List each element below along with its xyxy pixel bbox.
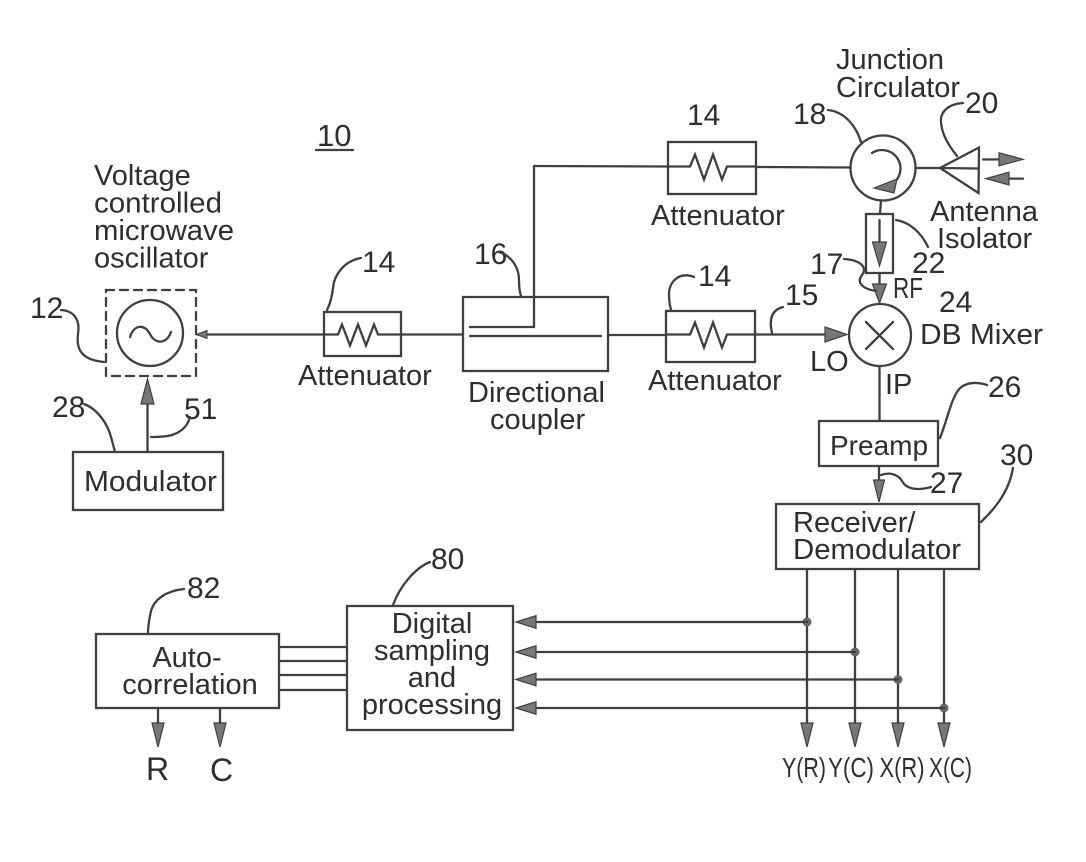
ref numeral 18 <box>793 98 826 131</box>
ref numeral 24 <box>939 286 972 319</box>
svg-text:20: 20 <box>965 87 998 120</box>
outgoing wave arrow <box>983 158 1004 160</box>
label LO <box>810 346 849 378</box>
label: Voltage controlled microwave oscillator <box>94 160 234 275</box>
svg-text:processing: processing <box>362 689 502 721</box>
mixer X <box>866 322 893 349</box>
feedback line 1 to digital box <box>536 621 807 623</box>
R output line <box>157 708 159 728</box>
wire attenuator 14c to mixer LO <box>755 333 827 335</box>
vertical output line XR <box>897 569 899 727</box>
arrowhead YR output <box>801 723 813 747</box>
ref numeral 14 (top attenuator) <box>687 99 720 132</box>
label Antenna <box>930 196 1039 228</box>
svg-text:Y(C): Y(C) <box>828 752 874 783</box>
figure number 10 <box>317 118 351 153</box>
attenuator 14a box <box>324 312 401 356</box>
leader 15 <box>771 307 783 333</box>
resistor zigzag 14a <box>324 325 401 346</box>
wire isolator to mixer RF <box>878 273 880 287</box>
receiver demodulator 30 box <box>776 504 979 569</box>
label Y(R) <box>782 752 826 783</box>
svg-text:15: 15 <box>785 279 818 312</box>
circulator rotation arc <box>872 150 900 184</box>
svg-text:Attenuator: Attenuator <box>648 365 782 397</box>
leader 22 <box>896 220 928 247</box>
svg-text:26: 26 <box>988 371 1021 404</box>
antenna 20 horn <box>940 148 979 194</box>
feedback line 3 to digital box <box>536 678 898 680</box>
label RF <box>893 273 923 305</box>
ref numeral 12 <box>30 292 63 325</box>
ref numeral 14 (first attenuator) <box>362 246 395 279</box>
ref numeral 15 <box>785 279 818 312</box>
ref numeral 51 <box>184 393 217 426</box>
DB mixer 24 circle <box>849 304 911 366</box>
label R <box>146 751 169 787</box>
svg-text:27: 27 <box>930 467 963 500</box>
preamp 26 box <box>819 421 938 466</box>
svg-text:Circulator: Circulator <box>836 72 960 104</box>
ref numeral 20 <box>965 87 998 120</box>
label Directional coupler <box>468 377 605 436</box>
svg-text:Modulator: Modulator <box>84 466 217 498</box>
svg-text:correlation: correlation <box>122 669 257 701</box>
underline of 10 <box>316 149 353 151</box>
feedback line 4 to digital box <box>536 707 944 709</box>
leader 16 <box>499 252 521 296</box>
svg-text:IP: IP <box>885 369 912 401</box>
leader 30 <box>981 468 1013 522</box>
ref numeral 80 <box>431 543 464 576</box>
small arrowhead at VCO output <box>197 331 208 339</box>
label DB Mixer <box>920 319 1043 351</box>
svg-text:oscillator: oscillator <box>94 243 209 275</box>
leader 27 <box>881 474 931 489</box>
C output line <box>219 708 221 728</box>
ref numeral 28 <box>52 391 85 424</box>
resistor zigzag 14b <box>668 155 756 180</box>
digital sampling and processing 80 box <box>347 606 513 730</box>
svg-text:30: 30 <box>1000 439 1033 472</box>
junction dot YC <box>851 648 860 657</box>
leader 20 <box>941 103 963 156</box>
wire attenuator 14b to circulator <box>756 166 851 169</box>
autocorrelation 82 box <box>96 634 279 708</box>
wire preamp to receiver <box>878 466 880 481</box>
svg-text:Y(R): Y(R) <box>782 752 826 783</box>
wire autocorrelation to digital 3 <box>279 674 347 676</box>
sine wave inside VCO <box>130 327 171 342</box>
junction dot XR <box>894 675 903 684</box>
svg-text:18: 18 <box>793 98 826 131</box>
leader 51 <box>151 417 190 437</box>
label Junction Circulator <box>836 44 960 104</box>
arrowhead into receiver <box>874 480 885 502</box>
svg-text:Attenuator: Attenuator <box>298 360 432 392</box>
leader 28 <box>84 404 115 452</box>
svg-text:R: R <box>146 751 169 787</box>
ref numeral 14 (second attenuator) <box>698 260 731 293</box>
label Isolator <box>937 223 1032 255</box>
label C <box>210 752 233 788</box>
ref numeral 82 <box>187 572 220 605</box>
arrowhead XR output <box>892 723 904 747</box>
ref numeral 16 <box>474 238 507 271</box>
svg-text:Demodulator: Demodulator <box>793 534 961 566</box>
wire attenuator 14a to coupler <box>401 333 463 335</box>
svg-text:14: 14 <box>698 260 731 293</box>
feedback line 2 to digital box <box>536 651 855 653</box>
vertical output line YR <box>806 569 808 727</box>
wire autocorrelation to digital 4 <box>279 689 347 691</box>
svg-text:17: 17 <box>810 248 843 281</box>
svg-text:Attenuator: Attenuator <box>651 200 785 232</box>
modulator box 28 <box>73 452 223 510</box>
leader 26 <box>940 383 987 438</box>
junction dot XC <box>940 704 949 713</box>
oscillator VCO circle <box>117 300 183 366</box>
leader 82 <box>148 589 184 633</box>
svg-text:28: 28 <box>52 391 85 424</box>
svg-text:14: 14 <box>687 99 720 132</box>
circulator arc arrowhead <box>874 179 897 193</box>
incoming wave arrow <box>1006 177 1023 179</box>
ref numeral 26 <box>988 371 1021 404</box>
svg-text:C: C <box>210 752 233 788</box>
svg-text:10: 10 <box>317 118 351 153</box>
resistor zigzag 14c <box>666 323 755 348</box>
isolator 22 box <box>866 214 893 273</box>
leader 12 <box>61 310 104 362</box>
attenuator 14c box (lower right) <box>666 311 755 362</box>
svg-text:RF: RF <box>893 273 923 305</box>
svg-text:DB Mixer: DB Mixer <box>920 319 1043 351</box>
arrowhead XC output <box>938 723 950 747</box>
ref numeral 17 <box>810 248 843 281</box>
wire autocorrelation to digital 2 <box>279 660 347 662</box>
leader 18 <box>828 110 861 142</box>
arrowhead RF into mixer <box>873 284 887 303</box>
svg-text:12: 12 <box>30 292 63 325</box>
ref numeral 27 <box>930 467 963 500</box>
svg-text:Preamp: Preamp <box>830 430 928 461</box>
svg-text:82: 82 <box>187 572 220 605</box>
wire VCO to attenuator 14a <box>197 333 324 335</box>
wire autocorrelation to digital 1 <box>279 646 347 648</box>
attenuator 14b box (top) <box>668 142 756 194</box>
isolator inner arrow <box>878 220 880 244</box>
label Attenuator (top) <box>651 200 785 232</box>
svg-text:LO: LO <box>810 346 849 378</box>
junction circulator 18 circle <box>851 136 916 201</box>
label Attenuator (first) <box>298 360 432 392</box>
wire mixer to preamp <box>878 366 880 421</box>
arrowhead modulator to VCO <box>141 379 154 404</box>
svg-text:24: 24 <box>939 286 972 319</box>
coupler coupled line going up <box>470 166 534 327</box>
coupler main line <box>470 335 601 337</box>
ref numeral 30 <box>1000 439 1033 472</box>
junction dot YR <box>803 618 812 627</box>
oscillator VCO 12 dashed box <box>106 290 196 376</box>
vertical output line YC <box>854 569 856 727</box>
label IP <box>885 369 912 401</box>
vertical output line XC <box>943 569 945 727</box>
svg-text:coupler: coupler <box>490 404 585 436</box>
antenna feed line <box>940 167 979 170</box>
svg-text:Isolator: Isolator <box>937 223 1032 255</box>
wire coupler to attenuator 14c <box>608 334 666 336</box>
wire coupler top to attenuator 14b <box>534 165 668 168</box>
arrowhead YC output <box>849 723 861 747</box>
label X(C) <box>929 752 972 783</box>
ref numeral 22 <box>912 247 945 280</box>
arrowhead LO into mixer <box>825 327 847 342</box>
svg-text:X(C): X(C) <box>929 752 972 783</box>
svg-text:80: 80 <box>431 543 464 576</box>
label Y(C) <box>828 752 874 783</box>
wire modulator to VCO <box>146 402 148 452</box>
leader 14a <box>327 258 361 310</box>
label X(R) <box>880 752 925 783</box>
svg-text:X(R): X(R) <box>880 752 925 783</box>
wire circulator to antenna <box>916 167 941 169</box>
leader 17 <box>844 259 876 291</box>
leader 14b2 <box>669 275 694 310</box>
directional coupler box 16 <box>463 297 608 371</box>
leader 80 <box>393 562 430 605</box>
wire circulator to isolator <box>880 201 881 215</box>
label Attenuator (lower right) <box>648 365 782 397</box>
svg-text:14: 14 <box>362 246 395 279</box>
